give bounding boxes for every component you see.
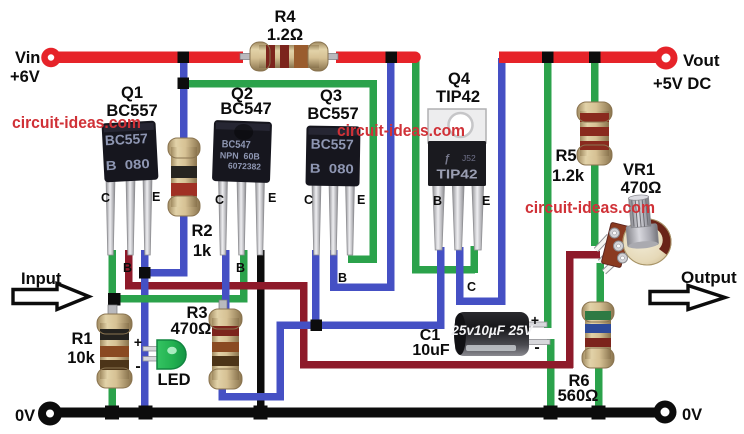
svg-text:Vout: Vout [683,51,720,70]
wire: blue Q4 collector to Vout red rail [456,58,506,305]
svg-text:circuit-ideas.com: circuit-ideas.com [337,121,465,140]
terminal: 0V left black ring [42,406,58,422]
svg-text:-: - [135,358,140,375]
wire: blue Q2 collector to R3 top [222,250,230,312]
svg-text:Q3: Q3 [320,87,342,105]
svg-text:-: - [534,339,539,356]
svg-text:470Ω: 470Ω [171,320,212,338]
svg-text:C: C [304,193,313,207]
junction on red rail at x391 [386,52,398,64]
wire: blue red-rail to R2 top [180,58,188,142]
svg-text:25v10µF 25V: 25v10µF 25V [450,323,533,338]
svg-text:J52: J52 [462,153,476,163]
terminal: 0V right black ring [657,404,673,420]
wire: green R6 bottom to 0V rail [595,363,603,413]
resistor R6 560Ω [582,302,614,368]
svg-text:+5V DC: +5V DC [653,75,711,93]
junction 0V rail at blue x145 [139,406,153,420]
output arrow [650,286,725,310]
svg-text:B 080: B 080 [310,161,354,177]
svg-text:ƒ: ƒ [444,153,450,165]
svg-text:TIP42: TIP42 [437,168,478,182]
wire: maroon riser x570 to VR1 wiper [566,251,600,368]
svg-text:Vin: Vin [15,49,40,67]
wire: green Q2 base drop [240,250,248,302]
svg-text:10uF: 10uF [412,342,450,359]
resistor R5 1.2k [577,102,612,165]
wire: green VR1 bottom lug to R6 top [597,263,605,308]
svg-text:NPN 60B: NPN 60B [220,150,261,161]
wire: green horizontal bus y83 from junction to Q3 emitter riser [180,80,377,88]
svg-text:TIP42: TIP42 [436,88,480,106]
svg-text:0V: 0V [682,406,702,424]
wire: blue Q3 base to red rail riser [330,58,395,291]
wire: black Q2 emitter to 0V rail [257,250,265,412]
svg-text:R2: R2 [191,222,212,240]
wire: green Vout rail to C1 plus [544,58,552,328]
svg-text:BC557: BC557 [104,130,148,148]
svg-text:B: B [338,271,347,285]
svg-text:E: E [357,193,365,207]
svg-text:circuit-ideas.com: circuit-ideas.com [525,198,655,217]
svg-text:Q1: Q1 [121,84,143,102]
wire: blue Q4 base drop [437,247,445,329]
svg-text:10k: 10k [67,349,95,367]
svg-text:E: E [268,191,276,205]
junction 0V rail at C1 minus [544,406,558,420]
svg-text:470Ω: 470Ω [621,179,662,197]
transistor Q4 TIP42 [428,109,486,250]
svg-text:B: B [123,261,132,275]
wire: maroon vertical x303 [300,282,308,368]
resistor R3 470Ω [209,309,242,389]
wire: green drop from red rail end to Q4 emitter [412,58,478,274]
svg-text:BC547: BC547 [220,100,271,118]
svg-text:LED: LED [158,371,191,389]
transistor Q1 BC557 [101,121,158,255]
svg-text:B: B [433,194,442,208]
wire: blue Q1 emitter junction to 0V rail [141,272,149,412]
junction on red rail at x594 [589,52,601,64]
junction green bus tap at x183 y83 [178,78,190,90]
transistor Q3 BC557 [305,126,360,255]
wire: maroon horizontal y364 to VR1 riser [300,361,573,369]
svg-text:BC547: BC547 [222,138,252,151]
wire: green R1 bottom to 0V rail [109,385,117,413]
svg-text:Output: Output [681,268,737,287]
transistor Q2 BC547 [212,120,272,255]
wire: green Q3 emitter link [348,256,377,264]
svg-text:C: C [467,280,476,294]
svg-text:1.2k: 1.2k [552,167,585,185]
svg-text:C: C [215,193,224,207]
resistor R2 1k [168,138,200,216]
svg-text:560Ω: 560Ω [558,387,599,405]
input arrow [13,284,89,310]
svg-text:VR1: VR1 [623,161,655,179]
wire: blue node left leg down to R3 bottom [219,322,285,401]
svg-text:+: + [134,334,142,350]
wire: red top rail left segment Vin to gap [55,52,421,64]
svg-text:B: B [236,261,245,275]
capacitor C1 10uF [450,312,550,356]
resistor R4 1.2Ω [250,42,328,71]
junction 0V rail at R1 [105,406,119,420]
junction on red rail at x547 [542,52,554,64]
junction 0V rail at Q2 emitter [254,406,268,420]
svg-text:0V: 0V [15,407,35,425]
resistor R4 lead right [322,54,338,60]
wire: blue R2 bottom to Q1 emitter junction [141,214,188,277]
junction input node [108,293,121,306]
terminal: Vin red ring [45,51,58,64]
wire: green R5 bottom to VR1 top lug [591,160,599,246]
wire: maroon Q1 base drop [125,250,133,289]
LED [143,340,186,369]
svg-text:6072382: 6072382 [228,161,262,172]
terminal: Vout red ring [658,50,674,66]
wire: blue Q1 emitter drop [141,250,149,274]
resistor R4 lead left [240,54,254,60]
svg-text:E: E [152,190,160,204]
svg-text:B 080: B 080 [105,156,150,173]
resistor R3 top lead [219,300,227,312]
svg-text:+: + [531,312,539,328]
svg-text:1k: 1k [193,242,212,260]
wire: green R1 top lead [109,301,117,317]
svg-text:R5: R5 [555,147,576,165]
junction R3 Q3C Q4B node [311,320,323,332]
resistor R1 10k [97,314,132,388]
svg-text:Q4: Q4 [448,70,471,88]
svg-text:R1: R1 [71,330,92,348]
junction Q1 emitter R2 node [139,267,151,279]
wire: black 0V bottom rail [58,408,655,418]
svg-text:+6V: +6V [10,68,40,86]
wire: blue node horizontal to Q4 base [277,322,445,330]
wire: blue Q3 collector drop to node [312,250,320,328]
svg-text:Input: Input [21,270,62,288]
svg-text:1.2Ω: 1.2Ω [267,26,303,44]
svg-text:circuit-ideas.com: circuit-ideas.com [12,113,141,132]
wire: green input junction to Q2 base horizontal [109,295,248,303]
wire: green vertical riser to Q3 emitter [370,80,378,263]
svg-text:E: E [482,194,490,208]
wire: red top rail right segment to Vout [499,52,659,64]
resistor R1 top lead [108,305,117,317]
wire: maroon horizontal y285 [125,282,307,290]
junction 0V rail at R6 [592,406,606,420]
wire: green Vout rail to R5 top [591,58,599,108]
svg-text:C: C [101,191,110,205]
junction on red rail at x183 [178,52,190,64]
wire: green patch over blue crossing [141,295,150,303]
potentiometer VR1 470&#937; [596,194,671,272]
svg-text:R4: R4 [274,8,296,26]
wire: green C1 minus to 0V rail [547,339,555,414]
wire: green Q1-C to input junction [109,250,117,305]
